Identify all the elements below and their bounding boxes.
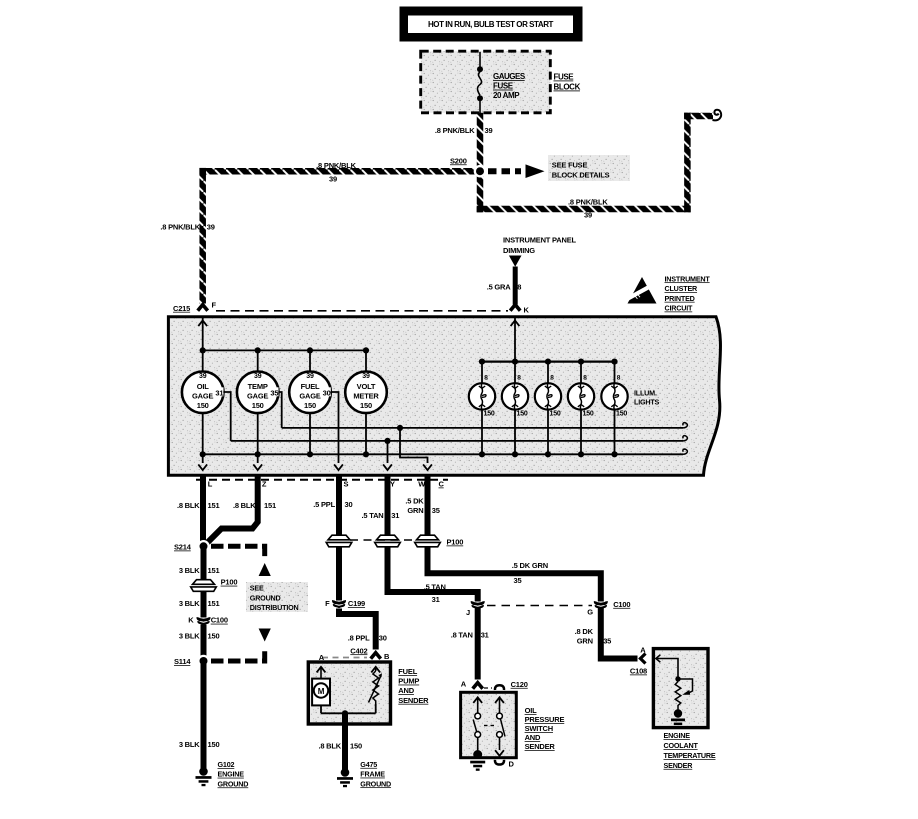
- terminal C: [439, 480, 445, 489]
- connector C100 terminal J: [466, 601, 592, 617]
- connector C100 terminal K: [188, 616, 228, 625]
- wire: FUEL GAGE pin 30 stub down to terminal S: [331, 392, 343, 470]
- connector C215 bottom row dashed line: [196, 479, 448, 481]
- off-page dashed link from S114 to ground distribution: [211, 629, 271, 662]
- svg-text:.8 PNK/BLK: .8 PNK/BLK: [316, 161, 356, 170]
- off-page arrow: SEE FUSE BLOCK DETAILS: [488, 155, 630, 181]
- connector C402 (terminals A and B): [319, 646, 390, 662]
- terminal Z: [262, 480, 267, 489]
- svg-text:35: 35: [514, 576, 522, 585]
- svg-text:S214: S214: [174, 543, 192, 552]
- wire 3 BLK 151: P100 to C100: [179, 592, 220, 618]
- svg-text:.5 GRA: .5 GRA: [487, 282, 512, 291]
- svg-text:8: 8: [517, 282, 521, 291]
- svg-text:30: 30: [323, 388, 331, 397]
- svg-text:G102: G102: [218, 760, 235, 769]
- svg-text:K: K: [188, 616, 194, 625]
- junction on H1 with drop to terminal W: [397, 425, 432, 470]
- wire: printed circuit bus H2 (circuit 31): [231, 436, 688, 441]
- svg-text:C: C: [439, 480, 445, 489]
- wire .5 DK GRN 35: terminal W to P100: [405, 477, 439, 536]
- svg-text:A: A: [461, 679, 467, 688]
- svg-text:151: 151: [264, 501, 276, 510]
- svg-text:GAGE: GAGE: [192, 391, 213, 400]
- svg-text:AND: AND: [398, 686, 414, 695]
- label: ENGINE COOLANT TEMPERATURE SENDER: [664, 731, 716, 770]
- fuel pump motor M: [312, 679, 330, 706]
- svg-text:39: 39: [485, 126, 493, 135]
- svg-text:C215: C215: [173, 304, 190, 313]
- wire .8 PNK/BLK 39 from fuse to splice S200: [435, 113, 493, 171]
- svg-text:Z: Z: [262, 480, 267, 489]
- svg-text:F: F: [325, 599, 330, 608]
- svg-text:30: 30: [379, 634, 387, 643]
- wire 3 BLK 151: S214 to P100: [179, 546, 220, 579]
- bulb: illumination lamp 5 (pins 8/150): [601, 362, 627, 458]
- wire .8 TAN 31: C100 J to C120 terminal A: [451, 608, 489, 680]
- svg-text:CLUSTER: CLUSTER: [665, 284, 699, 293]
- svg-text:39: 39: [584, 210, 592, 219]
- connector C215 terminal K: [510, 305, 529, 315]
- svg-text:C100: C100: [211, 616, 228, 625]
- svg-text:20 AMP: 20 AMP: [493, 91, 520, 100]
- svg-text:GAGE: GAGE: [247, 391, 268, 400]
- connector C100 terminal G: [587, 600, 630, 617]
- svg-text:PRESSURE: PRESSURE: [525, 715, 565, 724]
- svg-text:.8 PNK/BLK: .8 PNK/BLK: [160, 223, 200, 232]
- fuel pump and sender box: [308, 662, 390, 724]
- label: OIL PRESSURE SWITCH AND SENDER: [525, 706, 565, 751]
- splice S200 label: [450, 156, 467, 165]
- svg-text:150: 150: [197, 401, 209, 410]
- svg-text:GAGE: GAGE: [299, 391, 320, 400]
- svg-text:8: 8: [484, 375, 488, 382]
- svg-text:39: 39: [207, 223, 215, 232]
- off-page dashed link from S214 to ground distribution: [211, 546, 271, 576]
- svg-text:8: 8: [517, 375, 521, 382]
- svg-text:SEE FUSE: SEE FUSE: [552, 161, 588, 170]
- wire 3 BLK 150: S114 to G102: [179, 661, 220, 769]
- label: INSTRUMENT CLUSTER PRINTED CIRCUIT: [665, 274, 711, 312]
- label: SEE GROUND DISTRIBUTION: [246, 582, 308, 612]
- svg-text:B: B: [384, 652, 390, 661]
- svg-text:OIL: OIL: [197, 382, 210, 391]
- svg-text:8: 8: [550, 375, 554, 382]
- svg-text:.5 TAN: .5 TAN: [362, 511, 384, 520]
- svg-text:GROUND: GROUND: [218, 779, 249, 788]
- oil pressure switch and sender box: [461, 692, 517, 757]
- wire: illumination lamp bus: [479, 359, 618, 365]
- svg-text:METER: METER: [353, 391, 379, 400]
- wire .8 DK GRN 35: C100 G to C108: [575, 608, 638, 659]
- connector C120 terminal D: [495, 760, 515, 769]
- oil pressure switch (left pole): [473, 697, 482, 751]
- svg-text:C120: C120: [511, 680, 528, 689]
- wire: OIL GAGE bottom to terminal L: [198, 413, 207, 470]
- svg-text:A: A: [640, 645, 646, 654]
- gauge: VOLT METER (pins 39/150): [345, 372, 387, 414]
- svg-text:BLOCK: BLOCK: [554, 83, 581, 92]
- svg-text:HOT IN RUN, BULB TEST OR START: HOT IN RUN, BULB TEST OR START: [428, 20, 554, 29]
- svg-text:SENDER: SENDER: [664, 761, 694, 770]
- svg-text:COOLANT: COOLANT: [664, 741, 699, 750]
- svg-text:31: 31: [215, 388, 223, 397]
- ground G475 FRAME GROUND: [337, 760, 391, 788]
- connector C108 terminal A: [630, 645, 647, 675]
- svg-text:150: 150: [350, 742, 362, 751]
- bulb: illumination lamp 4 (pins 8/150): [568, 362, 594, 458]
- wire: dimming feed from terminal K to lamp bus: [511, 318, 520, 362]
- svg-text:.5 DK GRN: .5 DK GRN: [512, 561, 548, 570]
- fuse F: GAUGES FUSE 20 AMP: [477, 52, 526, 113]
- svg-text:3 BLK: 3 BLK: [179, 599, 200, 608]
- svg-text:.8 TAN: .8 TAN: [451, 630, 473, 639]
- svg-text:150: 150: [360, 401, 372, 410]
- svg-text:G: G: [587, 608, 593, 617]
- svg-text:AND: AND: [525, 733, 541, 742]
- svg-text:INSTRUMENT PANEL: INSTRUMENT PANEL: [503, 236, 577, 245]
- terminal L: [208, 480, 213, 489]
- svg-text:30: 30: [345, 500, 353, 509]
- svg-text:35: 35: [432, 506, 440, 515]
- svg-text:D: D: [509, 760, 515, 769]
- svg-text:CIRCUIT: CIRCUIT: [665, 304, 694, 313]
- svg-text:S114: S114: [174, 657, 191, 666]
- sender case ground symbol: [671, 709, 685, 725]
- wire .8 PNK/BLK 39 from S200 left and down to C215 terminal F: [160, 161, 480, 304]
- svg-text:3 BLK: 3 BLK: [179, 632, 200, 641]
- svg-text:TEMP: TEMP: [248, 382, 268, 391]
- wire .8 BLK 151: terminal Z to S214: [207, 477, 276, 544]
- svg-text:.8 BLK: .8 BLK: [177, 501, 200, 510]
- ground inside oil pressure switch: [470, 750, 485, 771]
- wire .8 PPL 30: C199 to C402 terminal B: [339, 609, 387, 650]
- svg-text:P100: P100: [221, 578, 238, 587]
- connector P100 (left, on ground wire): [191, 578, 238, 592]
- svg-text:150: 150: [616, 410, 627, 417]
- svg-text:35: 35: [270, 388, 278, 397]
- svg-text:GAUGES: GAUGES: [493, 72, 526, 81]
- wire .5 PPL 30: P100 to C199: [336, 547, 342, 601]
- wire .5 GRA 8 to terminal K: [487, 267, 522, 305]
- wire .5 PPL 30: terminal S to P100: [313, 477, 352, 536]
- splice S200 junction dot: [474, 165, 487, 178]
- svg-text:ENGINE: ENGINE: [218, 770, 245, 779]
- connector P100 row (S, Y, W wires): [326, 535, 463, 547]
- connector C199 terminal F: [325, 599, 365, 608]
- bulb: illumination lamp 3 (pins 8/150): [535, 362, 561, 458]
- svg-text:C199: C199: [348, 599, 365, 608]
- engine coolant temperature sender box: [653, 649, 708, 728]
- svg-text:GRN: GRN: [577, 637, 593, 646]
- svg-text:.5 PPL: .5 PPL: [313, 500, 335, 509]
- wire: printed circuit bus H1 (circuit 35): [282, 423, 688, 428]
- terminal S: [344, 480, 349, 489]
- svg-text:L: L: [208, 480, 213, 489]
- power source label: HOT IN RUN, BULB TEST OR START: [400, 7, 583, 42]
- wires: bus drops to gauge tops: [203, 350, 366, 372]
- svg-text:M: M: [318, 687, 325, 696]
- svg-text:C108: C108: [630, 667, 647, 676]
- svg-text:GRN: GRN: [407, 506, 423, 515]
- svg-text:DIMMING: DIMMING: [503, 246, 535, 255]
- svg-text:J: J: [466, 608, 470, 617]
- svg-text:8: 8: [617, 375, 621, 382]
- svg-text:SWITCH: SWITCH: [525, 724, 553, 733]
- wire: pump/sender common return inside box: [321, 704, 376, 716]
- svg-text:3 BLK: 3 BLK: [179, 740, 200, 749]
- label: FUSE BLOCK: [554, 73, 581, 92]
- svg-text:150: 150: [583, 410, 594, 417]
- svg-text:S200: S200: [450, 156, 467, 165]
- terminal W: [418, 480, 426, 489]
- wire .8 BLK 150: fuel pump to G475: [318, 713, 362, 769]
- svg-text:F: F: [212, 301, 217, 310]
- svg-text:PRINTED: PRINTED: [665, 294, 695, 303]
- fuse block dashed box: [421, 51, 551, 113]
- label: FUEL PUMP AND SENDER: [398, 667, 429, 705]
- svg-text:.8 BLK: .8 BLK: [233, 501, 256, 510]
- connector C215 terminal F: [173, 301, 508, 313]
- svg-text:FUSE: FUSE: [554, 73, 575, 82]
- wire .5 DK GRN 35: P100 to C100 terminal G: [428, 547, 601, 602]
- svg-text:INSTRUMENT: INSTRUMENT: [665, 274, 711, 283]
- svg-text:DISTRIBUTION: DISTRIBUTION: [250, 603, 299, 612]
- wire .8 PNK/BLK 39 from S200 down, right and up, off-page: [477, 110, 721, 220]
- wire: FUEL GAGE bottom to return bus: [307, 413, 313, 457]
- svg-text:150: 150: [517, 410, 528, 417]
- svg-text:SENDER: SENDER: [398, 696, 429, 705]
- ESD static-sensitive symbol: [623, 277, 657, 304]
- junction dots on feed bus: [200, 347, 370, 353]
- wire into coolant sender: [656, 655, 681, 682]
- svg-text:G475: G475: [360, 760, 377, 769]
- instrument panel dimming feed arrow: [503, 236, 577, 267]
- splice S114: [174, 655, 210, 668]
- svg-text:150: 150: [550, 410, 561, 417]
- svg-text:BLOCK DETAILS: BLOCK DETAILS: [552, 171, 610, 180]
- svg-text:.8 PPL: .8 PPL: [348, 634, 370, 643]
- svg-text:31: 31: [432, 595, 440, 604]
- svg-text:P100: P100: [447, 538, 464, 547]
- svg-text:SENDER: SENDER: [525, 742, 556, 751]
- wire .5 TAN 31: P100 to C100 terminal J: [388, 547, 478, 604]
- svg-text:31: 31: [391, 511, 399, 520]
- wire: gauge feed bus: [203, 349, 366, 351]
- wire: OIL GAGE pin 31 stub to bus H2: [223, 392, 230, 441]
- svg-text:151: 151: [208, 566, 220, 575]
- svg-text:151: 151: [208, 501, 220, 510]
- svg-text:.8 DK: .8 DK: [575, 627, 594, 636]
- svg-text:39: 39: [362, 373, 370, 380]
- svg-text:39: 39: [329, 175, 337, 184]
- svg-text:.8 PNK/BLK: .8 PNK/BLK: [568, 198, 608, 207]
- svg-text:.5 DK: .5 DK: [405, 497, 424, 506]
- wire: printed circuit return bus H3 (circuit 150): [203, 449, 688, 454]
- svg-text:K: K: [524, 306, 530, 315]
- wire .5 TAN 31: terminal Y to P100: [362, 477, 400, 536]
- wire 3 BLK 150: C100 to S114: [179, 625, 220, 658]
- svg-text:.5 TAN: .5 TAN: [424, 582, 446, 591]
- svg-text:150: 150: [208, 632, 220, 641]
- svg-text:PUMP: PUMP: [398, 677, 419, 686]
- fuel sender variable resistor: [369, 671, 383, 704]
- svg-text:GROUND: GROUND: [250, 593, 281, 602]
- svg-text:3 BLK: 3 BLK: [179, 566, 200, 575]
- svg-text:.8 PNK/BLK: .8 PNK/BLK: [435, 126, 475, 135]
- svg-text:31: 31: [481, 630, 489, 639]
- splice S214: [174, 540, 210, 553]
- svg-text:FUEL: FUEL: [398, 667, 417, 676]
- svg-text:.8 BLK: .8 BLK: [318, 742, 341, 751]
- svg-text:OIL: OIL: [525, 706, 538, 715]
- svg-text:C100: C100: [613, 600, 630, 609]
- svg-text:150: 150: [252, 401, 264, 410]
- wire: TEMP GAGE bottom to terminal Z: [253, 413, 262, 470]
- ground G102 ENGINE GROUND: [196, 760, 249, 788]
- gauge: TEMP GAGE (pins 39/35/150): [237, 372, 279, 414]
- wire: C402 A into pump motor: [317, 667, 326, 679]
- svg-text:SEE: SEE: [250, 584, 264, 593]
- svg-text:ENGINE: ENGINE: [664, 731, 691, 740]
- coolant temperature sender resistor: [675, 679, 692, 710]
- wire .8 BLK 151: terminal L to S214: [177, 477, 220, 544]
- svg-text:TEMPERATURE: TEMPERATURE: [664, 751, 716, 760]
- wire: C402 B into fuel sender: [371, 667, 380, 673]
- svg-text:8: 8: [583, 375, 587, 382]
- gauge: OIL GAGE (pins 39/31/150): [182, 372, 224, 414]
- junction on H2 with drop to terminal Y: [383, 438, 392, 470]
- svg-text:35: 35: [603, 637, 611, 646]
- wire: gauge feed from terminal F into cluster: [198, 318, 207, 350]
- svg-text:GROUND: GROUND: [360, 779, 391, 788]
- svg-text:LIGHTS: LIGHTS: [634, 398, 660, 407]
- bulb: illumination lamp 2 (pins 8/150): [502, 362, 528, 458]
- svg-text:FUEL: FUEL: [301, 382, 320, 391]
- bulb: illumination lamp 1 (pins 8/150): [469, 362, 495, 458]
- wire: TEMP GAGE pin 35 stub to bus H1: [278, 392, 281, 428]
- svg-text:S: S: [344, 480, 349, 489]
- gauge: FUEL GAGE (pins 39/30/150): [289, 372, 331, 414]
- svg-text:FUSE: FUSE: [493, 82, 514, 91]
- svg-text:VOLT: VOLT: [357, 382, 376, 391]
- svg-text:Y: Y: [390, 480, 395, 489]
- svg-text:ILLUM.: ILLUM.: [634, 389, 657, 398]
- svg-text:150: 150: [304, 401, 316, 410]
- svg-text:150: 150: [484, 410, 495, 417]
- wire: VOLT METER bottom to return bus: [363, 413, 369, 457]
- terminal Y: [390, 480, 395, 489]
- svg-text:C402: C402: [350, 646, 367, 655]
- svg-text:39: 39: [306, 373, 314, 380]
- instrument cluster printed circuit board: [168, 317, 720, 475]
- svg-text:FRAME: FRAME: [360, 770, 385, 779]
- connector C120 (terminal A): [461, 679, 528, 690]
- label: ILLUM. LIGHTS: [634, 389, 660, 407]
- oil sender switch (right pole): [484, 697, 505, 756]
- svg-text:151: 151: [208, 599, 220, 608]
- svg-text:39: 39: [254, 373, 262, 380]
- svg-text:39: 39: [199, 373, 207, 380]
- svg-text:150: 150: [208, 740, 220, 749]
